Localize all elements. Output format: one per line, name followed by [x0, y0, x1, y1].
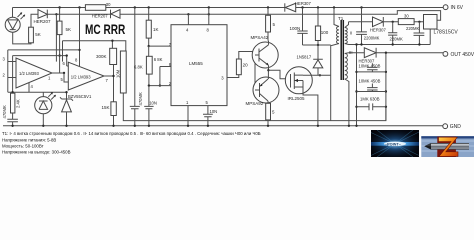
wire reference bus Y49.9: [8, 49, 80, 51]
svg-text:II: II: [350, 31, 352, 36]
svg-text:T1: I- 4 витка строенным прово: T1: I- 4 витка строенным проводом 0.6 . …: [2, 131, 261, 136]
diode 1N5817: [297, 45, 323, 77]
svg-text:15K: 15K: [102, 105, 110, 110]
diode HER307 (rail A series): [285, 1, 312, 12]
resistor 30 (rail A series): [85, 2, 111, 10]
svg-text:–POINT–: –POINT–: [385, 142, 401, 146]
op-amp U1B 1/2 LM393: [61, 58, 114, 91]
transformer T1 winding I (primary): [333, 6, 339, 43]
resistor 1K: [146, 6, 158, 47]
resistor 5K (R2): [57, 6, 71, 73]
wire 555 pin2 net: [148, 84, 171, 106]
diode HER207 (D2): [31, 10, 56, 28]
note text line 1: [2, 131, 261, 136]
wire drain net Y75: [312, 44, 339, 121]
svg-text:MPSA92: MPSA92: [246, 101, 264, 106]
op-amp U1A 1/2 LM393: [3, 57, 53, 93]
svg-text:1/2 LM393: 1/2 LM393: [19, 71, 39, 76]
diode HER207 (rail B series): [92, 10, 120, 19]
terminal OUT 450V: [443, 52, 474, 59]
svg-text:MC RRR: MC RRR: [85, 21, 125, 37]
capacitor 470MK (C1): [2, 105, 18, 127]
svg-text:MPSA42: MPSA42: [251, 35, 269, 40]
wire rail B drop column: [55, 14, 57, 61]
svg-text:10MK 450B: 10MK 450B: [359, 79, 381, 84]
IC U2 LM555: [169, 25, 227, 106]
svg-text:Напряжение питания: 5-8В: Напряжение питания: 5-8В: [2, 138, 56, 143]
wire aux ground rail Y44: [349, 29, 431, 45]
svg-text:30: 30: [404, 14, 409, 19]
svg-text:1K: 1K: [153, 27, 159, 32]
MOSFET Q3 IRL2505: [285, 67, 319, 127]
svg-text:10M: 10M: [116, 69, 121, 78]
transformer T1 winding III (HV secondary): [345, 50, 353, 127]
resistor 15K: [102, 102, 117, 127]
svg-text:470MK: 470MK: [2, 105, 7, 118]
capacitor 10N (pin5): [203, 106, 217, 127]
resistor 5K (R1, under LED): [29, 27, 41, 43]
node rail B start: [55, 13, 57, 15]
wire 555 pin6 net: [159, 67, 171, 87]
svg-text:L78S15CV: L78S15CV: [434, 30, 459, 36]
svg-text:LM555: LM555: [189, 61, 203, 66]
diode HER307 (aux rectifier): [370, 17, 386, 33]
wire rail A (+6V top rail): [13, 7, 444, 9]
capacitor 220MK (C8): [406, 21, 424, 46]
resistor 5: [266, 6, 276, 40]
svg-text:HER207: HER207: [34, 19, 52, 24]
logo Z: [421, 136, 474, 157]
wire op-amp supply column: [78, 6, 80, 66]
svg-text:100: 100: [321, 30, 329, 35]
wire op1 input column: [7, 50, 9, 92]
capacitor 220MK (C7): [388, 21, 403, 46]
capacitor 10N (timing): [144, 101, 157, 128]
wire 555 pin7 net: [149, 45, 171, 47]
svg-text:5K: 5K: [35, 32, 41, 37]
zener BZV55C5V1: [60, 92, 92, 127]
HV ladder right column: [385, 52, 387, 121]
note text line 3: [2, 144, 44, 149]
LED D3 (indicator): [35, 92, 56, 127]
svg-text:III: III: [349, 50, 353, 55]
svg-text:30: 30: [106, 2, 111, 7]
capacitor 2200MK: [356, 6, 380, 45]
svg-text:1N5817: 1N5817: [297, 54, 312, 59]
transformer T1 winding II (aux): [345, 22, 353, 45]
note text line 2: [2, 138, 56, 143]
wire node bus Y55.6: [13, 54, 68, 92]
note text line 4: [2, 150, 71, 155]
wire rail B (15V rail): [56, 11, 440, 21]
transistor Q2 MPSA92: [246, 70, 280, 127]
capacitor 10MK 450B (C10): [357, 79, 386, 92]
capacitor 10MK 450B (C9): [357, 63, 386, 72]
svg-text:10N: 10N: [210, 109, 218, 114]
svg-text:GND: GND: [450, 124, 462, 130]
svg-text:BZV55C5V1: BZV55C5V1: [68, 94, 92, 99]
svg-text:220MK: 220MK: [406, 26, 419, 31]
svg-text:300K: 300K: [96, 54, 107, 59]
svg-text:470MK: 470MK: [138, 92, 143, 105]
resistor 6.8K: [134, 46, 163, 86]
svg-text:2200MK: 2200MK: [364, 35, 380, 40]
logo POINT: [371, 130, 419, 157]
resistor 100: [315, 6, 328, 45]
svg-text:HER307: HER307: [370, 28, 386, 33]
wire 300K feed Y40: [63, 40, 126, 62]
svg-text:1/2 LM393: 1/2 LM393: [71, 75, 91, 80]
capacitor 1MK 630B (C11): [357, 97, 386, 111]
svg-text:6.8K: 6.8K: [134, 64, 143, 69]
resistor 30: [398, 14, 414, 25]
wire snubber bus Y45: [303, 44, 331, 46]
wire 555 pin3 output: [227, 75, 239, 78]
resistor 2.4K: [11, 93, 21, 119]
svg-text:HER307: HER307: [295, 1, 311, 6]
wire reference node Y92: [8, 91, 68, 93]
svg-text:T1: T1: [338, 16, 344, 21]
wire gate drive node: [267, 69, 285, 79]
svg-text:2.4K: 2.4K: [16, 99, 21, 108]
svg-text:IN 6V: IN 6V: [451, 5, 464, 11]
wire 555 pin8: [208, 6, 210, 24]
wire 555 pin4: [187, 13, 189, 25]
regulator U3 L78S15CV: [424, 15, 459, 36]
transformer T1 core: [338, 16, 344, 80]
terminal GND: [443, 124, 461, 130]
svg-text:10N: 10N: [149, 101, 157, 106]
resistor 10M: [116, 51, 127, 93]
svg-text:1MK 630B: 1MK 630B: [360, 97, 380, 102]
wire HV feedback Y120: [123, 93, 386, 121]
svg-text:100N: 100N: [290, 26, 301, 31]
svg-text:20: 20: [243, 63, 249, 68]
transistor Q1 MPSA42: [251, 35, 279, 70]
svg-text:IRL2505: IRL2505: [288, 96, 306, 101]
resistor 20: [236, 52, 255, 75]
capacitor 100N snubber: [290, 6, 308, 45]
wire ground rail: [3, 125, 443, 127]
wire op1 output: [52, 72, 65, 74]
diode HER307 (HV rectifier): [359, 48, 377, 64]
capacitor 470MK (C2): [130, 6, 143, 127]
wire driver base column: [254, 52, 256, 91]
svg-text:HER207: HER207: [92, 14, 108, 19]
wire 555 pin1 ground: [187, 106, 189, 127]
LED D1 (IR emitter top-left): [5, 8, 31, 44]
svg-text:5K: 5K: [66, 27, 72, 32]
wire rail B2 (rectified aux): [349, 21, 424, 23]
svg-text:Мощность: 50-100Вт: Мощность: 50-100Вт: [2, 144, 44, 149]
svg-text:6 8K: 6 8K: [154, 57, 163, 62]
svg-text:220MK: 220MK: [390, 36, 403, 41]
svg-text:OUT 450V: OUT 450V: [451, 52, 474, 58]
wire HV out rail: [349, 52, 444, 54]
resistor 300K: [96, 48, 117, 102]
text MC RRR: [85, 21, 125, 37]
terminal IN 6V: [443, 5, 463, 11]
HV ladder left column: [355, 43, 357, 127]
svg-text:Напряжение на выходе: 300-450В: Напряжение на выходе: 300-450В: [2, 150, 71, 155]
